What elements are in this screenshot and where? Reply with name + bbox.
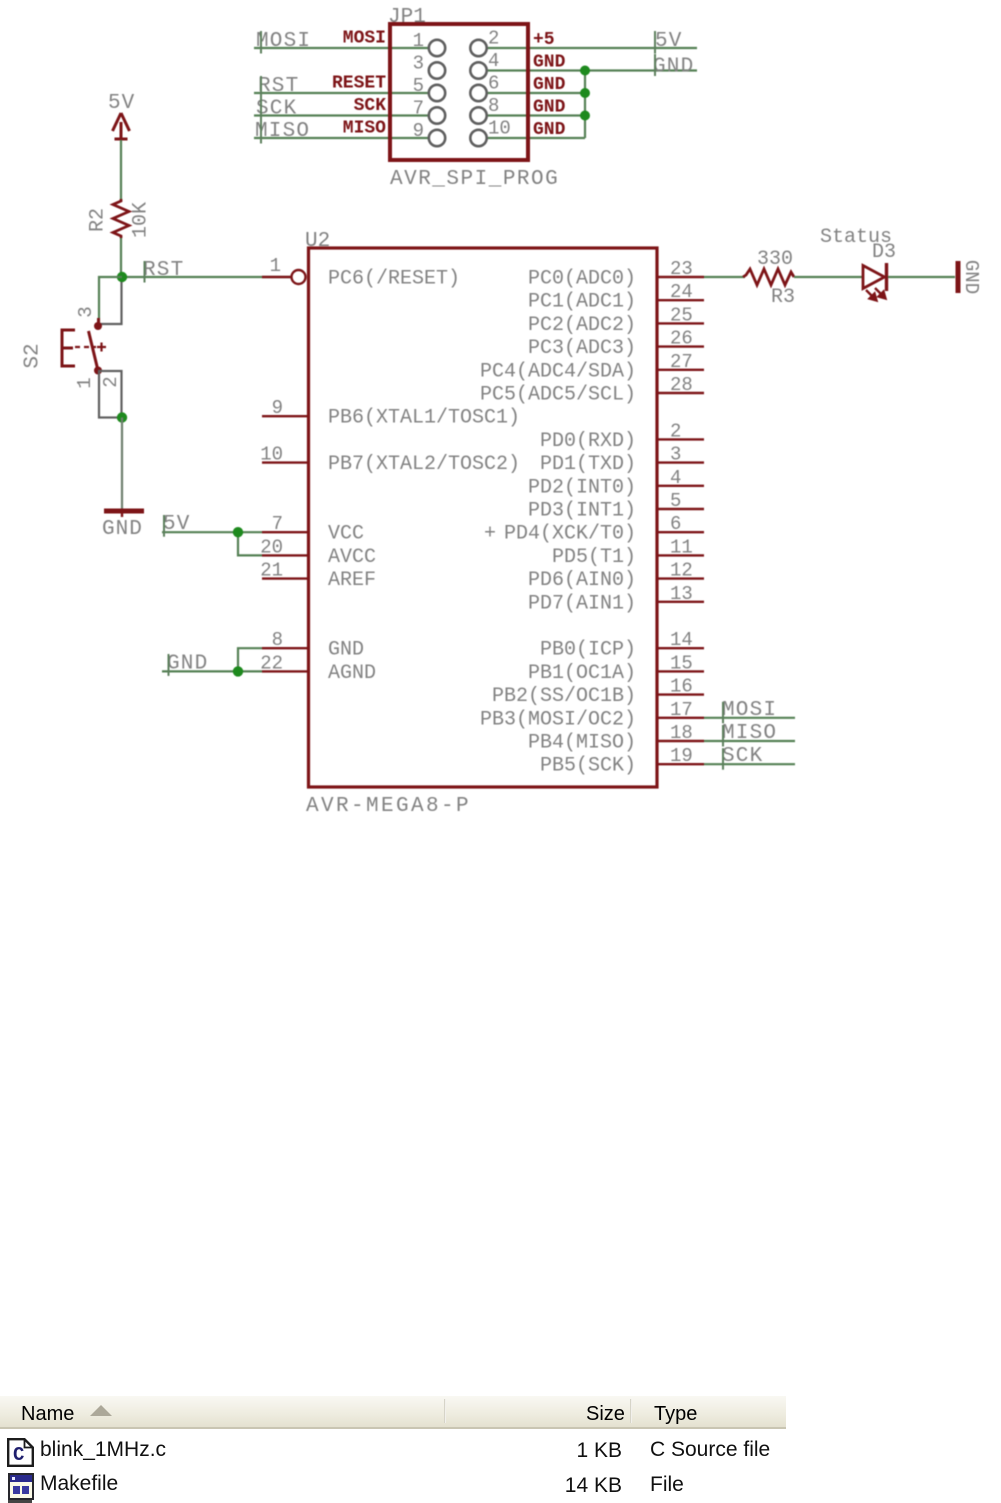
svg-text:20: 20	[260, 536, 283, 558]
svg-text:2: 2	[670, 420, 681, 442]
svg-text:PD2(INT0): PD2(INT0)	[528, 476, 636, 499]
U2 pin 2 stub	[657, 438, 704, 440]
svg-text:PB6(XTAL1/TOSC1): PB6(XTAL1/TOSC1)	[328, 407, 520, 430]
svg-text:PD3(INT1): PD3(INT1)	[528, 500, 636, 523]
svg-text:5V: 5V	[108, 92, 135, 115]
svg-text:3: 3	[670, 444, 681, 466]
svg-text:PC1(ADC1): PC1(ADC1)	[528, 291, 636, 314]
svg-text:8: 8	[488, 95, 499, 117]
svg-text:1: 1	[413, 30, 424, 52]
U2 pin 14 stub	[657, 647, 704, 649]
wire D3 to GND (right)	[888, 276, 955, 278]
svg-text:GND: GND	[533, 75, 566, 95]
U2 pin 5 stub	[657, 508, 704, 510]
U2 pin 13 stub	[657, 601, 704, 603]
svg-text:GND: GND	[960, 260, 982, 294]
wire MISO net to JP1 pin 9	[254, 137, 429, 139]
U2 pin 27 stub	[657, 369, 704, 371]
svg-text:MOSI: MOSI	[256, 30, 311, 53]
svg-text:SCK: SCK	[722, 745, 763, 768]
switch S2 lever	[89, 331, 99, 371]
svg-text:VCC: VCC	[328, 523, 364, 546]
wire MOSI net to JP1 pin 1	[254, 47, 429, 49]
svg-text:PB4(MISO): PB4(MISO)	[528, 732, 636, 755]
net label ticks	[145, 31, 724, 770]
svg-text:C: C	[13, 1444, 24, 1466]
svg-text:7: 7	[413, 98, 424, 120]
svg-text:GND: GND	[533, 98, 566, 118]
svg-text:D3: D3	[872, 241, 896, 264]
switch S2 actuator bracket	[62, 330, 75, 366]
svg-text:PD4(XCK/T0): PD4(XCK/T0)	[504, 523, 636, 546]
svg-text:17: 17	[670, 699, 693, 721]
svg-text:+: +	[484, 523, 496, 546]
wire U2 to MOSI net	[704, 717, 795, 719]
svg-text:10: 10	[260, 444, 283, 466]
LED D3 triangle	[863, 266, 885, 289]
svg-text:3: 3	[413, 53, 424, 75]
U2 pin 17 stub	[657, 717, 704, 719]
svg-text:12: 12	[670, 560, 693, 582]
wire GND to U2 AGND	[162, 670, 262, 672]
svg-text:U2: U2	[305, 230, 330, 253]
junction GND feed	[233, 666, 243, 676]
svg-text:13: 13	[670, 583, 693, 605]
U2 pin 11 stub	[657, 554, 704, 556]
wire RST node to U2 pin 1	[121, 276, 291, 278]
svg-text:AVCC: AVCC	[328, 546, 376, 569]
svg-text:MOSI: MOSI	[722, 699, 777, 722]
U2 pin 19 stub	[657, 763, 704, 765]
U2 pin 24 stub	[657, 299, 704, 301]
U2 pin 16 stub	[657, 693, 704, 695]
svg-text:7: 7	[272, 513, 283, 535]
switch S2 lever tick	[97, 318, 100, 326]
U2 pin 23 stub	[657, 276, 704, 278]
svg-text:10: 10	[488, 118, 511, 140]
svg-text:21: 21	[260, 560, 283, 582]
U2 pin 4 stub	[657, 485, 704, 487]
switch S2 actuator dashed link	[75, 346, 96, 348]
wire U2 to MISO net	[704, 740, 795, 742]
wire JP1 pin 4 to GND net	[487, 69, 697, 71]
svg-text:MISO: MISO	[255, 120, 310, 143]
svg-text:26: 26	[670, 328, 693, 350]
wire RST net to JP1 pin 5	[254, 92, 429, 94]
svg-text:GND: GND	[328, 639, 364, 662]
svg-text:11: 11	[670, 536, 693, 558]
svg-text:PD5(T1): PD5(T1)	[552, 546, 636, 569]
connector JP1 body	[390, 24, 528, 160]
svg-text:RST: RST	[143, 259, 184, 282]
svg-text:PB7(XTAL2/TOSC2): PB7(XTAL2/TOSC2)	[328, 453, 520, 476]
svg-text:SCK: SCK	[354, 96, 387, 116]
wire R2 to RST node	[120, 238, 122, 277]
IC U2 body	[309, 248, 658, 787]
U2 pin 21 stub	[262, 577, 308, 579]
file row 1	[40, 1438, 166, 1462]
svg-text:PB2(SS/OC1B): PB2(SS/OC1B)	[492, 685, 636, 708]
ground symbol GND (right)	[956, 261, 961, 293]
svg-text:GND: GND	[533, 120, 566, 140]
wire GND bus vertical	[584, 71, 586, 139]
svg-text:S2: S2	[22, 343, 45, 368]
U2 pin 28 stub	[657, 392, 704, 394]
svg-text:1: 1	[74, 377, 96, 388]
resistor R2	[113, 199, 129, 238]
U2 pin 10 stub	[262, 461, 308, 463]
wire 5V to U2 VCC	[162, 531, 262, 533]
svg-text:16: 16	[670, 676, 693, 698]
U2 pin 18 stub	[657, 740, 704, 742]
U2 pin 15 stub	[657, 670, 704, 672]
junction 5V feed	[233, 527, 243, 537]
svg-text:2: 2	[488, 28, 499, 50]
svg-text:9: 9	[413, 120, 424, 142]
file row 3 icon sliver	[8, 1500, 32, 1503]
ground symbol GND (left)	[104, 509, 144, 514]
svg-text:19: 19	[670, 745, 693, 767]
svg-text:18: 18	[670, 722, 693, 744]
file row 2	[40, 1472, 118, 1496]
LED D3 cathode bar	[885, 263, 888, 291]
svg-text:GND: GND	[533, 53, 566, 73]
U2 pin 7 stub	[262, 531, 308, 533]
wire S2 to GND	[121, 418, 123, 512]
junction RST node	[117, 272, 127, 282]
svg-text:MISO: MISO	[343, 119, 386, 139]
svg-text:PB0(ICP): PB0(ICP)	[540, 639, 636, 662]
wire R3 to D3 anode	[794, 276, 862, 278]
svg-text:5: 5	[413, 75, 424, 97]
svg-text:AVR_SPI_PROG: AVR_SPI_PROG	[390, 168, 559, 191]
svg-text:28: 28	[670, 374, 693, 396]
svg-text:330: 330	[757, 248, 793, 271]
switch S2 pin 3 stub	[99, 282, 122, 324]
wire GND branch to U2 GND	[238, 648, 262, 671]
switch S2 contact 1	[94, 367, 102, 375]
resistor R3	[743, 269, 794, 285]
svg-text:R3: R3	[771, 286, 795, 309]
switch S2 cross mark	[97, 343, 106, 352]
svg-text:23: 23	[670, 258, 693, 280]
U2 pin 9 stub	[262, 415, 308, 417]
switch S2 contact 3	[94, 322, 102, 330]
svg-text:1: 1	[270, 255, 281, 277]
svg-text:PC3(ADC3): PC3(ADC3)	[528, 337, 636, 360]
U2 pin 20 stub	[262, 554, 308, 556]
wire JP1 pin 6 to GND bus	[487, 92, 585, 94]
svg-text:22: 22	[260, 652, 283, 674]
svg-text:GND: GND	[653, 56, 694, 79]
svg-text:JP1: JP1	[388, 6, 426, 29]
wire JP1 pin 10 to GND bus	[487, 137, 585, 139]
wire RST node down to switch S2 pin 3	[99, 277, 122, 324]
junction GND bus at pin 6 row	[580, 88, 590, 98]
wire U2 to SCK net	[704, 763, 795, 765]
wire JP1 pin 2 to 5V net	[487, 47, 697, 49]
wire 5V to R2	[120, 140, 122, 199]
svg-text:5V: 5V	[655, 30, 683, 53]
U2 pin 1 stub with inversion bubble	[262, 276, 291, 278]
U2 pin 26 stub	[657, 345, 704, 347]
svg-text:MISO: MISO	[722, 722, 777, 745]
svg-text:PB3(MOSI/OC2): PB3(MOSI/OC2)	[480, 708, 636, 731]
svg-text:SCK: SCK	[256, 98, 297, 121]
svg-text:AREF: AREF	[328, 569, 376, 592]
U2 pin 3 stub	[657, 461, 704, 463]
wire JP1 pin 8 to GND bus	[487, 114, 585, 116]
U2 pin 8 stub	[262, 647, 308, 649]
svg-text:+5: +5	[533, 30, 555, 50]
svg-text:PD1(TXD): PD1(TXD)	[540, 453, 636, 476]
svg-text:6: 6	[488, 73, 499, 95]
wire 5V branch to AVCC	[238, 532, 262, 555]
svg-text:6: 6	[670, 513, 681, 535]
svg-text:MOSI: MOSI	[343, 29, 386, 49]
svg-text:15: 15	[670, 652, 693, 674]
svg-text:2: 2	[100, 376, 122, 387]
switch S2 pin 2 stub	[99, 371, 122, 418]
U2 pin 22 stub	[262, 670, 308, 672]
svg-text:PC6(/RESET): PC6(/RESET)	[328, 268, 460, 291]
junction GND bus at pin 8 row	[580, 111, 590, 121]
svg-text:RST: RST	[258, 75, 299, 98]
U2 pin 6 stub	[657, 531, 704, 533]
svg-text:PB5(SCK): PB5(SCK)	[540, 755, 636, 778]
LED D3 light arrows	[866, 288, 886, 301]
svg-text:4: 4	[488, 50, 499, 72]
wire SCK net to JP1 pin 7	[254, 114, 429, 116]
svg-text:14: 14	[670, 629, 693, 651]
svg-text:R2: R2	[87, 208, 110, 232]
connector JP1 pin pads left column	[429, 40, 445, 146]
svg-text:25: 25	[670, 304, 693, 326]
svg-text:24: 24	[670, 281, 693, 303]
svg-text:RESET: RESET	[332, 74, 386, 94]
svg-text:AGND: AGND	[328, 662, 376, 685]
U2 pin 25 stub	[657, 322, 704, 324]
svg-text:PD7(AIN1): PD7(AIN1)	[528, 592, 636, 615]
svg-text:PD0(RXD): PD0(RXD)	[540, 430, 636, 453]
svg-text:GND: GND	[102, 518, 143, 541]
svg-text:10K: 10K	[130, 202, 153, 238]
svg-text:PC5(ADC5/SCL): PC5(ADC5/SCL)	[480, 384, 636, 407]
svg-text:PC2(ADC2): PC2(ADC2)	[528, 314, 636, 337]
svg-text:8: 8	[272, 629, 283, 651]
U2 pin 12 stub	[657, 577, 704, 579]
svg-text:4: 4	[670, 467, 681, 489]
svg-text:PC0(ADC0): PC0(ADC0)	[528, 268, 636, 291]
svg-text:AVR-MEGA8-P: AVR-MEGA8-P	[306, 795, 471, 818]
svg-text:PB1(OC1A): PB1(OC1A)	[528, 662, 636, 685]
svg-text:PD6(AIN0): PD6(AIN0)	[528, 569, 636, 592]
svg-text:5: 5	[670, 490, 681, 512]
svg-text:PC4(ADC4/SDA): PC4(ADC4/SDA)	[480, 360, 636, 383]
svg-text:3: 3	[75, 306, 97, 317]
junction GND bus at pin 4 row	[580, 66, 590, 76]
connector JP1 pin pads right column	[470, 40, 486, 146]
svg-text:9: 9	[272, 397, 283, 419]
junction below S2	[117, 412, 127, 422]
svg-text:27: 27	[670, 351, 693, 373]
wire U2 pin 23 to R3	[704, 276, 745, 278]
supply symbol 5V	[113, 113, 130, 140]
